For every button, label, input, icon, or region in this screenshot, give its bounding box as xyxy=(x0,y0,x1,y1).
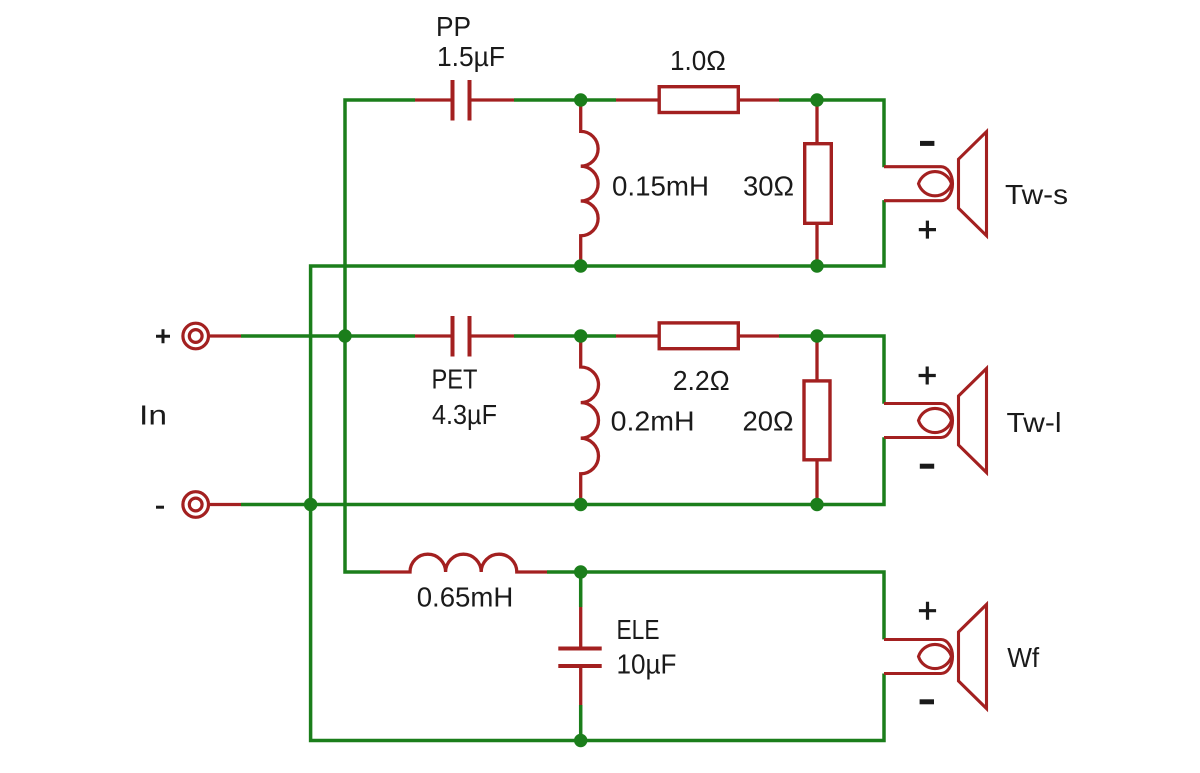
node: junction bottom rail / ELE cap xyxy=(574,734,587,747)
svg-text:10µF: 10µF xyxy=(617,649,677,680)
node: junction Tw-s return / 0.15mH xyxy=(574,259,587,272)
polarity minus sign at Wf bottom xyxy=(920,699,934,704)
resistor R 2.2ohm xyxy=(616,323,779,349)
svg-text:1.0Ω: 1.0Ω xyxy=(670,45,726,76)
svg-text:0.2mH: 0.2mH xyxy=(611,406,695,437)
wire: woofer row right of 0.65mH to Wf top lead xyxy=(547,572,884,639)
node: junction minus row / left bus xyxy=(304,498,317,511)
svg-text:Tw-l: Tw-l xyxy=(1007,407,1062,438)
inductor L 0.15mH xyxy=(581,100,598,266)
wire: top rail right of 1.0R to Tw-s top lead xyxy=(779,100,884,167)
node: junction top rail / 30ohm xyxy=(810,93,823,106)
node: junction woofer row / ELE cap xyxy=(574,565,587,578)
wire: green stub ELE cap to node F xyxy=(579,705,583,741)
resistor R 20ohm xyxy=(804,336,830,505)
capacitor PP 1.5uF xyxy=(415,80,514,121)
speaker Tw-l xyxy=(884,369,987,473)
wire: Tw-s return rail, left bus down and bottom rail to Wf bottom lead xyxy=(311,200,884,740)
wire: left feed from top rail corner down to woofer branch xyxy=(345,100,415,572)
svg-text:ELE: ELE xyxy=(617,614,660,645)
terminal - input xyxy=(183,492,241,518)
inductor L 0.65mH xyxy=(380,554,547,572)
wire: minus input row rail to Tw-l bottom lead xyxy=(241,437,884,504)
capacitor ELE 10uF xyxy=(558,607,601,705)
node: junction minus row / 0.2mH xyxy=(574,498,587,511)
polarity minus sign at Tw-s top xyxy=(920,141,934,146)
resistor R 1.0ohm xyxy=(616,87,779,113)
node: junction plus row / left feed xyxy=(338,329,351,342)
svg-text:PP: PP xyxy=(436,11,471,42)
wire: mid row between PET cap and 0.2mH node xyxy=(514,334,616,338)
wire: top rail between PP cap and 0.15mH node xyxy=(514,98,616,102)
node: junction mid row / 0.2mH xyxy=(574,329,587,342)
wire: green stub node E to ELE cap xyxy=(579,572,583,607)
inductor L 0.2mH xyxy=(581,336,599,505)
terminal + input xyxy=(183,323,241,349)
node: junction mid row / 20ohm xyxy=(810,329,823,342)
polarity plus sign at Tw-s bottom xyxy=(919,221,936,239)
speaker Tw-s xyxy=(884,132,987,236)
svg-text:4.3µF: 4.3µF xyxy=(432,399,497,430)
svg-text:Tw-s: Tw-s xyxy=(1005,179,1068,210)
node: junction top rail / 0.15mH xyxy=(574,93,587,106)
svg-text:Wf: Wf xyxy=(1007,642,1039,673)
svg-text:0.65mH: 0.65mH xyxy=(417,582,514,613)
polarity minus sign at Tw-l bottom xyxy=(920,464,934,469)
svg-text:1.5µF: 1.5µF xyxy=(437,41,505,72)
wire: mid row right of 2.2R to Tw-l top lead xyxy=(779,336,884,404)
svg-text:PET: PET xyxy=(432,364,478,395)
wire: plus input row to PET cap xyxy=(241,334,415,338)
node: junction minus row / 20ohm xyxy=(810,498,823,511)
speaker Wf xyxy=(884,605,987,709)
svg-text:2.2Ω: 2.2Ω xyxy=(673,365,730,396)
svg-text:30Ω: 30Ω xyxy=(743,171,794,202)
node: junction Tw-s return / 30ohm xyxy=(810,259,823,272)
svg-text:In: In xyxy=(139,400,167,431)
polarity plus sign at Wf top xyxy=(919,602,936,620)
svg-text:0.15mH: 0.15mH xyxy=(612,171,709,202)
polarity plus sign at input top xyxy=(156,329,170,343)
capacitor PET 4.3uF xyxy=(415,316,514,357)
polarity plus sign at Tw-l top xyxy=(919,367,936,385)
polarity minus sign at input bottom xyxy=(156,506,164,509)
resistor R 30ohm xyxy=(805,100,832,266)
svg-text:20Ω: 20Ω xyxy=(743,406,794,437)
